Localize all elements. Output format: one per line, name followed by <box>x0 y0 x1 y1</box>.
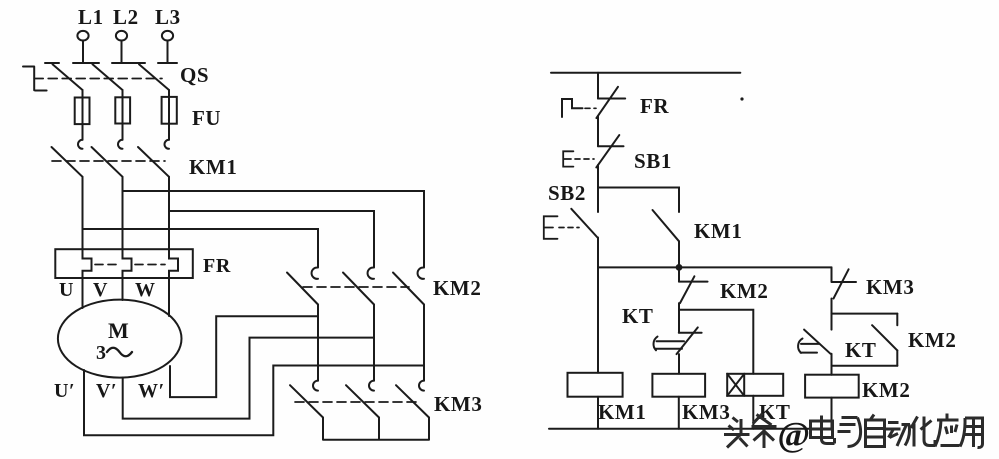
node U label <box>59 279 74 301</box>
node W label <box>135 279 156 301</box>
contact KT (NO delayed) <box>798 314 831 366</box>
wire phase2 KM1 to FR <box>122 177 124 249</box>
wire tap phase1 to KM2 pole1 <box>83 229 319 262</box>
wire FU to KM1 pole3 <box>168 124 170 140</box>
KM2 mechanical link (dashed) <box>303 286 409 288</box>
contact KM2 pole1 <box>287 262 318 305</box>
svg-text:KM1: KM1 <box>189 155 237 179</box>
wire branch to KT coil <box>679 310 753 374</box>
KM2 label (interlock) <box>720 279 768 303</box>
svg-text:QS: QS <box>180 63 209 87</box>
wire QS to FU pole1 <box>82 90 84 97</box>
terminal L3 <box>162 31 173 41</box>
contact FR (NC, control) <box>596 87 625 146</box>
node U' label <box>54 380 75 402</box>
svg-text:KM3: KM3 <box>682 400 730 424</box>
wire FR to motor V <box>122 278 124 300</box>
char zi <box>866 415 885 447</box>
char yong <box>960 418 983 448</box>
switch QS pole 3 <box>131 63 177 90</box>
KM3 label (interlock) <box>866 275 914 299</box>
svg-text:KM1: KM1 <box>694 219 742 243</box>
KM3 mechanical link (dashed) <box>295 401 420 403</box>
svg-text:KM1: KM1 <box>598 400 646 424</box>
SB1 actuator E <box>563 151 573 166</box>
wire motor W' to KM2 pole1 bottom <box>170 316 318 397</box>
wire FR to motor U <box>82 278 84 308</box>
KM1 label (coil) <box>598 400 646 424</box>
wire motor V' to KM2 pole2 bottom <box>123 338 374 419</box>
wire KM2 pole1 to KM3 pole1 <box>317 305 319 381</box>
KT label (right) <box>845 338 877 362</box>
svg-text:V′: V′ <box>96 380 117 402</box>
svg-text:M: M <box>108 318 129 343</box>
char ying <box>935 414 960 447</box>
motor M text <box>96 318 129 364</box>
char qi <box>838 418 861 447</box>
node junction dot <box>676 264 683 271</box>
QS label <box>180 63 209 87</box>
node L2 label <box>113 5 139 29</box>
coil KM1 <box>568 267 623 428</box>
KT label (middle) <box>622 304 654 328</box>
wire KM2 pole3 to KM3 pole3 <box>423 305 425 381</box>
svg-text:V: V <box>93 279 108 301</box>
wire control bus <box>598 266 832 268</box>
KM3 label (power) <box>434 392 482 416</box>
fuse FU pole2 <box>115 97 130 123</box>
contact KM2 pole2 <box>343 262 374 305</box>
char hua <box>911 417 935 447</box>
wire parallel group top <box>832 313 898 315</box>
wire parallel group bottom <box>832 365 898 367</box>
wire FU to KM1 pole2 <box>122 124 124 140</box>
KM2 label (power) <box>433 276 481 300</box>
contact KM3 pole2 <box>346 381 379 418</box>
wire phase1 KM1 to FR <box>82 177 84 249</box>
wire KM3 star point bus <box>323 418 429 440</box>
FR heater element pole2 <box>123 249 132 278</box>
wire FR to motor W <box>168 278 170 316</box>
motor tilde <box>107 348 132 357</box>
contact KM2 pole3 <box>393 262 424 305</box>
node V label <box>93 279 108 301</box>
char tiao <box>752 414 777 449</box>
contact KM1 pole2 <box>92 140 123 177</box>
wire QS to FU pole3 <box>168 90 170 97</box>
wire tap phase3 to KM2 pole2 <box>169 211 374 262</box>
node L3 label <box>155 5 181 29</box>
svg-text:KM2: KM2 <box>720 279 768 303</box>
KM2 label (aux right) <box>908 328 956 352</box>
coil KM3 <box>652 374 705 429</box>
svg-text:U′: U′ <box>54 380 75 402</box>
KM1 label <box>189 155 237 179</box>
contact KM3 pole1 <box>290 381 323 418</box>
wire QS to FU pole2 <box>122 90 124 97</box>
fuse FU pole3 <box>162 97 177 124</box>
contact KM2 aux (NO self-hold) <box>872 314 897 366</box>
fuse FU pole1 <box>75 98 90 125</box>
svg-text:3: 3 <box>96 342 107 364</box>
coil KM2 <box>805 366 859 429</box>
wire motor U' to KM2 pole3 bottom <box>84 366 424 436</box>
svg-text:KM3: KM3 <box>866 275 914 299</box>
KM3 label (coil) <box>682 400 730 424</box>
svg-text:@: @ <box>778 415 811 454</box>
wire control top bus <box>551 72 740 74</box>
svg-text:L2: L2 <box>113 5 139 29</box>
wire phase3 KM1 to FR <box>168 177 170 249</box>
svg-text:W: W <box>135 279 156 301</box>
svg-text:KM2: KM2 <box>433 276 481 300</box>
FR heater element pole1 <box>83 249 92 278</box>
wire L2 stem <box>121 41 123 63</box>
contact KM2 (NC interlock) <box>679 267 708 309</box>
svg-text:L1: L1 <box>78 5 104 29</box>
svg-text:L3: L3 <box>155 5 181 29</box>
coil KT (time relay) <box>727 374 783 429</box>
wire branch to KM1 aux <box>598 188 679 213</box>
SB1 actuator link dashed <box>575 158 594 160</box>
node W' label <box>138 380 165 402</box>
wire FU to KM1 pole1 <box>82 124 84 140</box>
thermal relay FR box <box>55 249 193 278</box>
KT label (coil) <box>759 400 791 424</box>
svg-text:U: U <box>59 279 74 301</box>
svg-text:FU: FU <box>192 106 221 130</box>
contact KM1 aux (NO self-hold) <box>653 210 680 267</box>
FR label (control) <box>640 94 669 118</box>
contact KM1 pole3 <box>138 140 169 177</box>
QS handle <box>23 67 47 91</box>
svg-text:KM2: KM2 <box>862 378 910 402</box>
button SB2 (NO) <box>571 188 598 268</box>
FR label (power) <box>203 255 231 277</box>
motor M ellipse <box>58 300 182 378</box>
node V' label <box>96 380 117 402</box>
svg-text:KM2: KM2 <box>908 328 956 352</box>
switch QS pole 1 <box>45 63 92 90</box>
svg-text:FR: FR <box>203 255 231 277</box>
SB2 label <box>548 181 586 205</box>
FR heater symbol (control) <box>562 99 583 117</box>
wire KM2 pole2 to KM3 pole2 <box>373 305 375 381</box>
svg-text:SB1: SB1 <box>634 149 672 173</box>
wire top bus to FR contact <box>597 73 599 99</box>
char at-sign <box>778 415 811 454</box>
FU label <box>192 106 221 130</box>
contact KM3 (NC interlock) <box>832 267 857 313</box>
KM2 label (coil) <box>862 378 910 402</box>
wire control bottom bus <box>549 428 832 430</box>
svg-text:KT: KT <box>622 304 654 328</box>
svg-text:KT: KT <box>845 338 877 362</box>
char dong <box>886 423 910 447</box>
stray ink dot <box>740 97 743 100</box>
wire tap phase2 to KM2 pole3 <box>123 191 425 262</box>
contact KT (NC delayed) <box>654 310 702 374</box>
SB1 label <box>634 149 672 173</box>
terminal L1 <box>77 31 88 41</box>
svg-text:W′: W′ <box>138 380 165 402</box>
svg-text:FR: FR <box>640 94 669 118</box>
watermark 头条@电气自动化应用 <box>724 414 983 455</box>
wire L3 stem <box>167 41 169 63</box>
FR heater element pole3 <box>169 249 178 278</box>
terminal L2 <box>116 31 127 41</box>
node L1 label <box>78 5 104 29</box>
SB2 actuator E <box>544 216 558 239</box>
contact KM3 pole3 <box>396 381 429 418</box>
char tou <box>724 418 750 448</box>
SB2 actuator link dashed <box>559 227 579 229</box>
switch QS pole 2 <box>85 63 131 90</box>
QS mechanical link (dashed) <box>34 78 162 80</box>
char dian <box>811 416 835 444</box>
svg-text:KM3: KM3 <box>434 392 482 416</box>
button SB1 (NC) <box>596 135 623 187</box>
contact KM1 pole1 <box>52 140 83 177</box>
FR heater link dashed <box>585 107 596 109</box>
wire L1 stem <box>82 41 84 63</box>
KM1 mechanical link (dashed) <box>52 160 165 162</box>
KM1 label (aux) <box>694 219 742 243</box>
svg-text:SB2: SB2 <box>548 181 586 205</box>
FR heater link (dashed) <box>95 264 165 266</box>
